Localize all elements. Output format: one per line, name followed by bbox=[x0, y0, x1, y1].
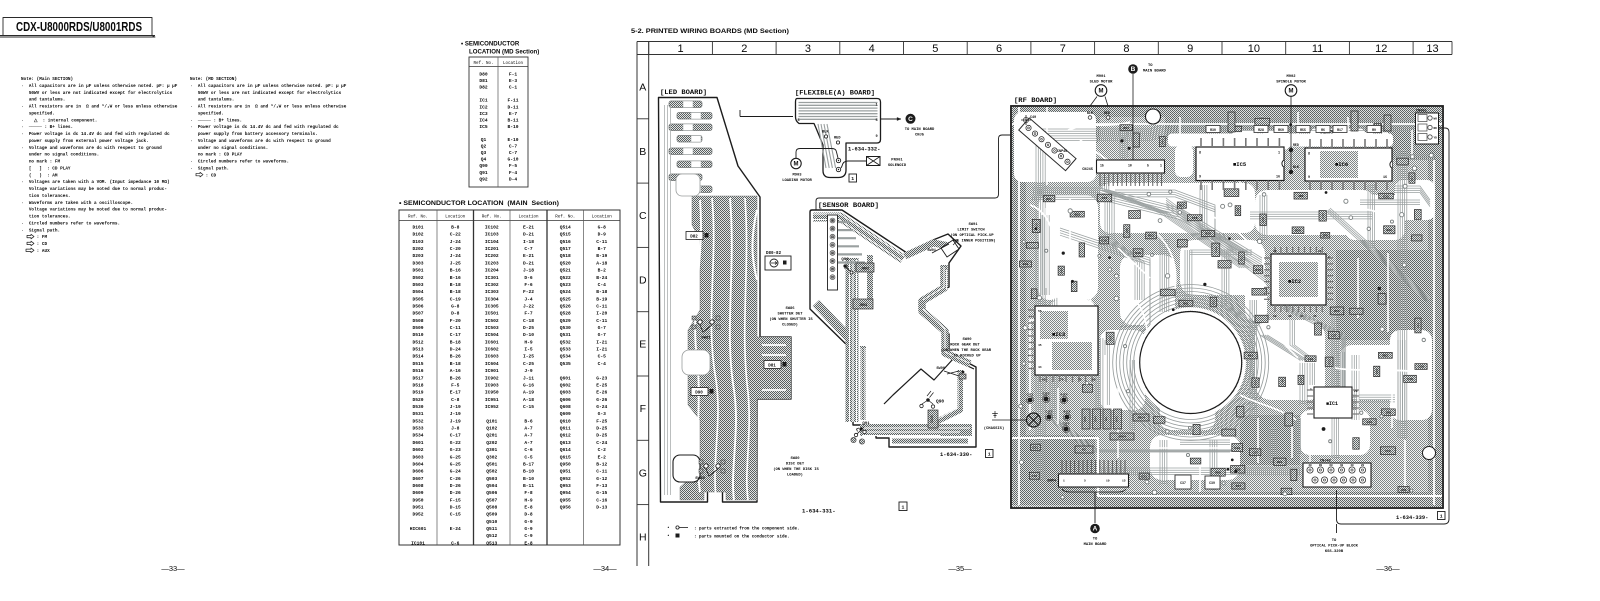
svg-text:( ) : AM: ( ) : AM bbox=[21, 173, 58, 178]
svg-text:IC2: IC2 bbox=[479, 104, 488, 110]
svg-text:Q91: Q91 bbox=[479, 170, 488, 176]
svg-text:IC102: IC102 bbox=[485, 225, 499, 231]
svg-text:D80: D80 bbox=[479, 72, 488, 78]
svg-text:Q602: Q602 bbox=[560, 382, 571, 388]
svg-text:D609: D609 bbox=[412, 490, 423, 496]
svg-text:OPTICAL PICK-UP BLOCK: OPTICAL PICK-UP BLOCK bbox=[1310, 545, 1359, 549]
svg-text:D950: D950 bbox=[412, 497, 423, 503]
svg-text:D203: D203 bbox=[412, 253, 423, 259]
svg-text:RD: RD bbox=[1434, 127, 1438, 130]
svg-text:B-10: B-10 bbox=[507, 124, 518, 130]
svg-text:C: C bbox=[908, 116, 913, 123]
svg-text:Q518: Q518 bbox=[560, 253, 571, 259]
svg-text:Q90: Q90 bbox=[936, 399, 944, 405]
svg-text:D-4: D-4 bbox=[509, 176, 518, 182]
svg-text:J-11: J-11 bbox=[523, 375, 534, 381]
svg-text:D-11: D-11 bbox=[507, 104, 518, 110]
svg-text:C-6: C-6 bbox=[451, 540, 460, 546]
svg-text:J-8: J-8 bbox=[451, 426, 460, 432]
svg-text:· Voltage and waveforms are d: · Voltage and waveforms are dc with resp… bbox=[21, 146, 162, 151]
svg-text:(ON WHEN THE DISK IS: (ON WHEN THE DISK IS bbox=[773, 467, 819, 472]
svg-text:C-2: C-2 bbox=[598, 447, 607, 453]
svg-text:Q610: Q610 bbox=[560, 418, 571, 424]
svg-text:Voltage variations may be note: Voltage variations may be noted due to n… bbox=[21, 187, 167, 192]
svg-text:Q501: Q501 bbox=[486, 461, 497, 467]
svg-text:IC902: IC902 bbox=[485, 375, 499, 381]
svg-text:G-16: G-16 bbox=[523, 382, 534, 388]
svg-text:G-26: G-26 bbox=[596, 397, 607, 403]
svg-text:M: M bbox=[794, 162, 799, 168]
svg-text:[FLEXIBLE(A) BOARD]: [FLEXIBLE(A) BOARD] bbox=[795, 90, 875, 98]
svg-text:KSS-320B: KSS-320B bbox=[1325, 550, 1344, 554]
svg-text:C-25: C-25 bbox=[523, 361, 534, 367]
svg-text:60: 60 bbox=[1329, 464, 1333, 467]
svg-text:D-8: D-8 bbox=[524, 512, 533, 518]
svg-text:C-6: C-6 bbox=[524, 447, 533, 453]
svg-text:BLK: BLK bbox=[822, 131, 829, 135]
svg-text:D303: D303 bbox=[412, 260, 423, 266]
svg-text:C13: C13 bbox=[1214, 247, 1218, 253]
svg-text:JR14: JR14 bbox=[1137, 416, 1145, 420]
svg-text:R9: R9 bbox=[1372, 128, 1376, 132]
svg-text:C-18: C-18 bbox=[523, 318, 534, 324]
svg-text:B-18: B-18 bbox=[450, 339, 461, 345]
svg-text:Q517: Q517 bbox=[560, 246, 571, 252]
svg-text:· Signal path.: · Signal path. bbox=[190, 166, 229, 171]
svg-text:9: 9 bbox=[1199, 176, 1201, 180]
svg-text:IC5: IC5 bbox=[479, 124, 488, 130]
svg-text:D508: D508 bbox=[412, 318, 423, 324]
svg-text:F-22: F-22 bbox=[523, 289, 534, 295]
svg-text:A-18: A-18 bbox=[523, 397, 534, 403]
svg-text:W43: W43 bbox=[1116, 416, 1119, 422]
svg-text:Q953: Q953 bbox=[560, 483, 571, 489]
svg-text:R55: R55 bbox=[1300, 128, 1306, 132]
svg-text:D952: D952 bbox=[412, 512, 423, 518]
svg-text:5: 5 bbox=[876, 119, 878, 123]
svg-text:Q950: Q950 bbox=[560, 461, 571, 467]
svg-text:D-21: D-21 bbox=[523, 232, 534, 238]
svg-text:Q2: Q2 bbox=[481, 144, 487, 150]
svg-text:(ON OPTICAL PICK-UP: (ON OPTICAL PICK-UP bbox=[950, 233, 994, 238]
svg-text:C15: C15 bbox=[1367, 420, 1373, 424]
svg-text:1: 1 bbox=[1063, 480, 1065, 483]
svg-text:Q954: Q954 bbox=[560, 490, 571, 496]
svg-text:5-2. PRINTED WIRING BOARDS (MD: 5-2. PRINTED WIRING BOARDS (MD Section) bbox=[631, 28, 789, 35]
svg-text:MAIN BOARD: MAIN BOARD bbox=[1143, 70, 1167, 74]
svg-text:B-24: B-24 bbox=[596, 275, 607, 281]
svg-text:B-6: B-6 bbox=[524, 418, 533, 424]
svg-text:D608: D608 bbox=[412, 483, 423, 489]
svg-text:12: 12 bbox=[1375, 43, 1387, 55]
svg-text:under no signal conditions.: under no signal conditions. bbox=[190, 146, 268, 151]
svg-text:R25: R25 bbox=[1205, 232, 1211, 236]
svg-text:C-15: C-15 bbox=[523, 404, 534, 410]
svg-text:· Waveforms are taken with a: · Waveforms are taken with a oscilloscop… bbox=[21, 201, 133, 206]
svg-text:44: 44 bbox=[1300, 315, 1304, 318]
svg-text:J-24: J-24 bbox=[450, 239, 461, 245]
svg-text:D504: D504 bbox=[412, 289, 423, 295]
svg-text:HIC601: HIC601 bbox=[410, 526, 427, 532]
svg-text:I-20: I-20 bbox=[596, 311, 607, 317]
svg-text:Q92: Q92 bbox=[841, 258, 849, 262]
svg-text:9: 9 bbox=[876, 135, 878, 139]
svg-text:LIMIT SWITCH: LIMIT SWITCH bbox=[957, 229, 985, 233]
svg-text:CNJ45: CNJ45 bbox=[1082, 168, 1093, 172]
svg-text:D90: D90 bbox=[695, 392, 703, 396]
svg-text:Location: Location bbox=[503, 61, 524, 66]
svg-text:D502: D502 bbox=[412, 275, 423, 281]
svg-text:20: 20 bbox=[1361, 464, 1365, 467]
svg-text:: CD: : CD bbox=[21, 242, 47, 247]
svg-text:C-26: C-26 bbox=[450, 476, 461, 482]
svg-text:8: 8 bbox=[1308, 153, 1310, 157]
svg-text:D602: D602 bbox=[412, 447, 423, 453]
svg-text:Q202: Q202 bbox=[486, 440, 497, 446]
svg-text:CNP45: CNP45 bbox=[1057, 150, 1067, 154]
svg-text:C41: C41 bbox=[1416, 323, 1420, 329]
svg-text:IC204: IC204 bbox=[485, 268, 499, 274]
svg-text:C21: C21 bbox=[1141, 474, 1147, 478]
svg-text:F: F bbox=[640, 403, 646, 415]
svg-text:G-8: G-8 bbox=[598, 225, 607, 231]
svg-text:C21: C21 bbox=[1033, 445, 1039, 449]
svg-text:R61: R61 bbox=[1183, 301, 1189, 305]
svg-text:RED: RED bbox=[1293, 143, 1299, 147]
svg-text:55: 55 bbox=[1038, 310, 1042, 313]
svg-text:C1F2: C1F2 bbox=[1046, 411, 1053, 414]
svg-text:C-11: C-11 bbox=[596, 239, 607, 245]
svg-text:· Circled numbers refer to wa: · Circled numbers refer to waveforms. bbox=[190, 160, 289, 165]
svg-text:D513: D513 bbox=[412, 347, 423, 353]
svg-text:[LED BOARD]: [LED BOARD] bbox=[660, 89, 707, 97]
svg-text:C-11: C-11 bbox=[450, 325, 461, 331]
svg-text:A-19: A-19 bbox=[523, 390, 534, 396]
svg-text:C16: C16 bbox=[1192, 216, 1198, 220]
svg-text:J-19: J-19 bbox=[450, 418, 461, 424]
svg-text:1: 1 bbox=[1160, 164, 1162, 168]
svg-text:B-18: B-18 bbox=[450, 289, 461, 295]
svg-text:IC502: IC502 bbox=[485, 318, 499, 324]
svg-text:52: 52 bbox=[1273, 315, 1277, 318]
svg-text:specified.: specified. bbox=[21, 111, 55, 116]
svg-text:Q528: Q528 bbox=[560, 311, 571, 317]
svg-text:C-7: C-7 bbox=[509, 144, 518, 150]
svg-text:A-7: A-7 bbox=[524, 426, 533, 432]
svg-text:Q955: Q955 bbox=[560, 497, 571, 503]
svg-text:C2F2: C2F2 bbox=[1063, 423, 1070, 426]
svg-text:SHUTTER DET: SHUTTER DET bbox=[777, 313, 803, 317]
svg-text:D533: D533 bbox=[412, 426, 423, 432]
svg-text:D-21: D-21 bbox=[523, 260, 534, 266]
svg-text:CDX-U8000RDS/U8001RDS: CDX-U8000RDS/U8001RDS bbox=[16, 20, 142, 34]
svg-text:B-11: B-11 bbox=[507, 117, 518, 123]
svg-text:B: B bbox=[1131, 66, 1136, 73]
svg-text:1: 1 bbox=[1278, 152, 1280, 156]
svg-text:R6: R6 bbox=[1321, 128, 1325, 132]
svg-text:F-4: F-4 bbox=[509, 170, 518, 176]
svg-text:under no signal conditions.: under no signal conditions. bbox=[21, 153, 99, 158]
svg-text:1-634-339-: 1-634-339- bbox=[1396, 515, 1428, 521]
svg-text:Q531: Q531 bbox=[560, 332, 571, 338]
svg-text:—36—: —36— bbox=[1376, 564, 1400, 573]
svg-text:JR8: JR8 bbox=[1298, 194, 1304, 198]
svg-text:D-8: D-8 bbox=[451, 311, 460, 317]
svg-text:D506: D506 bbox=[412, 303, 423, 309]
svg-text:· ───── : B+ lines.: · ───── : B+ lines. bbox=[21, 125, 73, 130]
svg-text:B-18: B-18 bbox=[596, 289, 607, 295]
svg-text:Q603: Q603 bbox=[560, 390, 571, 396]
svg-text:Q523: Q523 bbox=[560, 282, 571, 288]
svg-text:D-25: D-25 bbox=[596, 433, 607, 439]
svg-text:RED: RED bbox=[1104, 111, 1110, 115]
svg-text:D: D bbox=[639, 274, 647, 286]
svg-text:F-13: F-13 bbox=[596, 483, 607, 489]
svg-text:IC4: IC4 bbox=[479, 117, 488, 123]
svg-text:R53: R53 bbox=[1148, 234, 1154, 238]
svg-text:R44: R44 bbox=[1236, 484, 1242, 488]
svg-text:R25: R25 bbox=[1327, 359, 1331, 365]
svg-text:Q606: Q606 bbox=[560, 397, 571, 403]
svg-text:Location: Location bbox=[518, 214, 539, 219]
svg-text:MAIN BOARD: MAIN BOARD bbox=[1084, 543, 1108, 547]
svg-text:R62: R62 bbox=[1383, 354, 1389, 358]
svg-text:•: • bbox=[667, 526, 670, 531]
svg-text:B-7: B-7 bbox=[598, 246, 607, 252]
svg-text:2: 2 bbox=[1328, 256, 1330, 259]
svg-text:LOADED): LOADED) bbox=[787, 473, 803, 478]
svg-text:D-10: D-10 bbox=[523, 332, 534, 338]
svg-text:D101: D101 bbox=[412, 225, 423, 231]
svg-text:28: 28 bbox=[1273, 250, 1277, 253]
svg-text:44: 44 bbox=[1038, 366, 1042, 369]
svg-text:TO MAIN BOARD: TO MAIN BOARD bbox=[905, 128, 935, 132]
svg-text:JR04: JR04 bbox=[859, 304, 867, 308]
svg-text:E-10: E-10 bbox=[507, 137, 518, 143]
svg-text:D-6: D-6 bbox=[524, 275, 533, 281]
svg-text:Q956: Q956 bbox=[560, 505, 571, 511]
svg-text:Q526: Q526 bbox=[560, 303, 571, 309]
svg-text:B-8: B-8 bbox=[451, 225, 460, 231]
svg-text:· △ : internal component.: · △ : internal component. bbox=[21, 118, 97, 123]
svg-text:D501: D501 bbox=[412, 268, 423, 274]
svg-text:PN901: PN901 bbox=[891, 159, 903, 163]
svg-text:IC1: IC1 bbox=[479, 98, 488, 104]
svg-text:Q508: Q508 bbox=[486, 505, 497, 511]
svg-text:B-18: B-18 bbox=[450, 282, 461, 288]
svg-text:Q506: Q506 bbox=[486, 490, 497, 496]
svg-text:C-11: C-11 bbox=[596, 318, 607, 324]
svg-text:C-1: C-1 bbox=[509, 85, 518, 91]
svg-text:E-8: E-8 bbox=[524, 540, 533, 546]
svg-text:R17: R17 bbox=[1179, 203, 1185, 207]
svg-text:E-3: E-3 bbox=[509, 78, 518, 84]
svg-text:DNM4: DNM4 bbox=[1047, 480, 1056, 484]
svg-text:Q601: Q601 bbox=[560, 375, 571, 381]
svg-text:Q201: Q201 bbox=[486, 433, 497, 439]
svg-text:E-8: E-8 bbox=[524, 505, 533, 511]
svg-text:9: 9 bbox=[1308, 176, 1310, 180]
svg-text:Q511: Q511 bbox=[486, 526, 497, 532]
svg-text:D518: D518 bbox=[412, 382, 423, 388]
svg-text:R37: R37 bbox=[1108, 335, 1112, 341]
svg-text:Q512: Q512 bbox=[486, 533, 497, 539]
svg-text:[ ] : CD PLAY: [ ] : CD PLAY bbox=[21, 166, 71, 171]
svg-text:D531: D531 bbox=[412, 411, 423, 417]
svg-text:Q522: Q522 bbox=[560, 275, 571, 281]
svg-text:80: 80 bbox=[1319, 464, 1323, 467]
svg-text:8: 8 bbox=[1199, 152, 1201, 156]
svg-text:tion tolerances.: tion tolerances. bbox=[21, 194, 71, 199]
svg-text:DISC DET: DISC DET bbox=[786, 463, 805, 467]
svg-text:I-18: I-18 bbox=[523, 239, 534, 245]
svg-text:(ON WHEN SHUTTER IS: (ON WHEN SHUTTER IS bbox=[769, 317, 813, 322]
svg-text:F-5: F-5 bbox=[451, 382, 460, 388]
svg-text:RED: RED bbox=[834, 137, 841, 141]
svg-text:R15: R15 bbox=[1255, 268, 1261, 272]
svg-text:D80-82: D80-82 bbox=[766, 252, 782, 256]
svg-text:LOADING MOTOR: LOADING MOTOR bbox=[782, 179, 812, 183]
svg-text:E-25: E-25 bbox=[596, 382, 607, 388]
svg-text:M: M bbox=[1099, 89, 1104, 95]
svg-text:D516: D516 bbox=[412, 368, 423, 374]
svg-text:SLED MOTOR: SLED MOTOR bbox=[1090, 81, 1114, 85]
svg-text:W3: W3 bbox=[1105, 417, 1108, 421]
svg-text:R24: R24 bbox=[1295, 228, 1301, 232]
svg-text:Q530: Q530 bbox=[560, 325, 571, 331]
svg-text:D951: D951 bbox=[412, 505, 423, 511]
svg-text:G-10: G-10 bbox=[507, 157, 518, 163]
svg-text:B-17: B-17 bbox=[523, 461, 534, 467]
svg-text:21: 21 bbox=[1318, 250, 1322, 253]
svg-text:J-4: J-4 bbox=[524, 296, 533, 302]
svg-text:IC501: IC501 bbox=[485, 311, 499, 317]
svg-text:R40: R40 bbox=[1023, 262, 1029, 266]
svg-text:—34—: —34— bbox=[593, 564, 617, 573]
svg-text:E-17: E-17 bbox=[450, 390, 461, 396]
svg-text:E-24: E-24 bbox=[450, 526, 461, 532]
svg-text:A-7: A-7 bbox=[524, 433, 533, 439]
svg-text:Q302: Q302 bbox=[486, 454, 497, 460]
svg-text:Q90: Q90 bbox=[479, 163, 488, 169]
svg-text:C1E2: C1E2 bbox=[1043, 393, 1050, 396]
svg-text:70: 70 bbox=[1060, 379, 1064, 382]
svg-text:E-7: E-7 bbox=[509, 111, 518, 117]
svg-text:C-22: C-22 bbox=[450, 232, 461, 238]
svg-text:R46: R46 bbox=[1375, 369, 1379, 375]
svg-text:Q529: Q529 bbox=[560, 318, 571, 324]
svg-text:E-2: E-2 bbox=[598, 454, 607, 460]
svg-text:IC503: IC503 bbox=[485, 325, 499, 331]
svg-text:U2: U2 bbox=[1082, 448, 1086, 452]
svg-text:D603: D603 bbox=[412, 454, 423, 460]
svg-text:1-634-330-: 1-634-330- bbox=[940, 452, 972, 458]
svg-text:M903: M903 bbox=[792, 174, 802, 178]
svg-text:C-8: C-8 bbox=[451, 397, 460, 403]
svg-text:B: B bbox=[639, 146, 646, 158]
svg-text:IC950: IC950 bbox=[485, 390, 499, 396]
svg-text:C46: C46 bbox=[1280, 379, 1284, 385]
svg-text:IC305: IC305 bbox=[485, 303, 499, 309]
svg-text:C-19: C-19 bbox=[450, 296, 461, 302]
svg-text:F-6: F-6 bbox=[524, 282, 533, 288]
svg-text:R28: R28 bbox=[1258, 128, 1264, 132]
svg-text:C-20: C-20 bbox=[450, 246, 461, 252]
svg-text:D81: D81 bbox=[479, 78, 488, 84]
svg-text:8: 8 bbox=[1123, 43, 1129, 55]
svg-text:•: • bbox=[667, 534, 670, 539]
svg-text:80: 80 bbox=[1092, 379, 1096, 382]
svg-text:Q102: Q102 bbox=[486, 426, 497, 432]
svg-text:C-4: C-4 bbox=[598, 361, 607, 367]
svg-text:Q509: Q509 bbox=[486, 512, 497, 518]
svg-text:M901: M901 bbox=[1096, 75, 1106, 79]
svg-text:—35—: —35— bbox=[948, 564, 972, 573]
svg-text:Note: (MD SECTION): Note: (MD SECTION) bbox=[190, 77, 237, 82]
svg-text:Q4: Q4 bbox=[481, 157, 487, 163]
svg-text:65: 65 bbox=[1042, 379, 1046, 382]
svg-text:M: M bbox=[1289, 89, 1294, 95]
svg-text:and tantalums.: and tantalums. bbox=[21, 98, 65, 103]
svg-text:JPK4: JPK4 bbox=[1118, 435, 1126, 439]
svg-text:· Signal path.: · Signal path. bbox=[21, 228, 60, 233]
svg-text:A: A bbox=[639, 81, 646, 93]
svg-text:(CHASSIS): (CHASSIS) bbox=[984, 426, 1005, 431]
svg-text:40: 40 bbox=[1288, 315, 1292, 318]
svg-text:SW91: SW91 bbox=[927, 249, 936, 253]
svg-text:C37: C37 bbox=[1180, 481, 1186, 485]
svg-text:G-23: G-23 bbox=[450, 447, 461, 453]
svg-text:IC303: IC303 bbox=[485, 289, 499, 295]
svg-text:B-19: B-19 bbox=[596, 253, 607, 259]
svg-text:45: 45 bbox=[1313, 315, 1317, 318]
svg-text:Q502: Q502 bbox=[486, 469, 497, 475]
svg-text:40: 40 bbox=[1350, 464, 1354, 467]
svg-text:· Voltages are taken with a V: · Voltages are taken with a VOM. (Input … bbox=[21, 180, 170, 185]
svg-text:C19: C19 bbox=[1032, 474, 1038, 478]
svg-text:3: 3 bbox=[805, 43, 811, 55]
svg-text:Note: (Main SECTION): Note: (Main SECTION) bbox=[21, 77, 73, 82]
svg-text:Q514: Q514 bbox=[560, 225, 571, 231]
svg-text:G-7: G-7 bbox=[598, 325, 607, 331]
svg-text:C27: C27 bbox=[1331, 333, 1337, 337]
svg-text:· All resistors are in Ω and: · All resistors are in Ω and ¹/₄W or les… bbox=[21, 105, 178, 110]
svg-text:TO: TO bbox=[1332, 539, 1337, 543]
svg-text:Q301: Q301 bbox=[486, 447, 497, 453]
svg-text:C31: C31 bbox=[1383, 194, 1389, 198]
svg-text:· Voltage and waveforms are d: · Voltage and waveforms are dc with resp… bbox=[190, 139, 331, 144]
svg-text:· All resistors are in Ω and: · All resistors are in Ω and ¹/₄W or les… bbox=[190, 105, 347, 110]
svg-text:Q614: Q614 bbox=[560, 447, 571, 453]
svg-text:B-10: B-10 bbox=[523, 476, 534, 482]
svg-text:1-634-331-: 1-634-331- bbox=[802, 508, 836, 515]
svg-text:• SEMICONDUCTOR: • SEMICONDUCTOR bbox=[461, 41, 520, 48]
svg-text:C38: C38 bbox=[1101, 239, 1107, 243]
svg-text:R60: R60 bbox=[1215, 470, 1221, 474]
svg-text:A-16: A-16 bbox=[450, 368, 461, 374]
svg-text:E-21: E-21 bbox=[523, 225, 534, 231]
svg-text:D-24: D-24 bbox=[450, 347, 461, 353]
svg-text:C: C bbox=[639, 210, 647, 222]
svg-text:IC601: IC601 bbox=[485, 339, 499, 345]
svg-text:C-17: C-17 bbox=[450, 332, 461, 338]
svg-text:Location: Location bbox=[592, 214, 613, 219]
svg-text:50WV or less are not indicated: 50WV or less are not indicated except fo… bbox=[190, 91, 342, 96]
svg-text:■IC1: ■IC1 bbox=[1326, 401, 1338, 407]
svg-text:YD: YD bbox=[1434, 137, 1438, 140]
svg-text:Q951: Q951 bbox=[560, 469, 571, 475]
svg-text:IC951: IC951 bbox=[485, 397, 499, 403]
